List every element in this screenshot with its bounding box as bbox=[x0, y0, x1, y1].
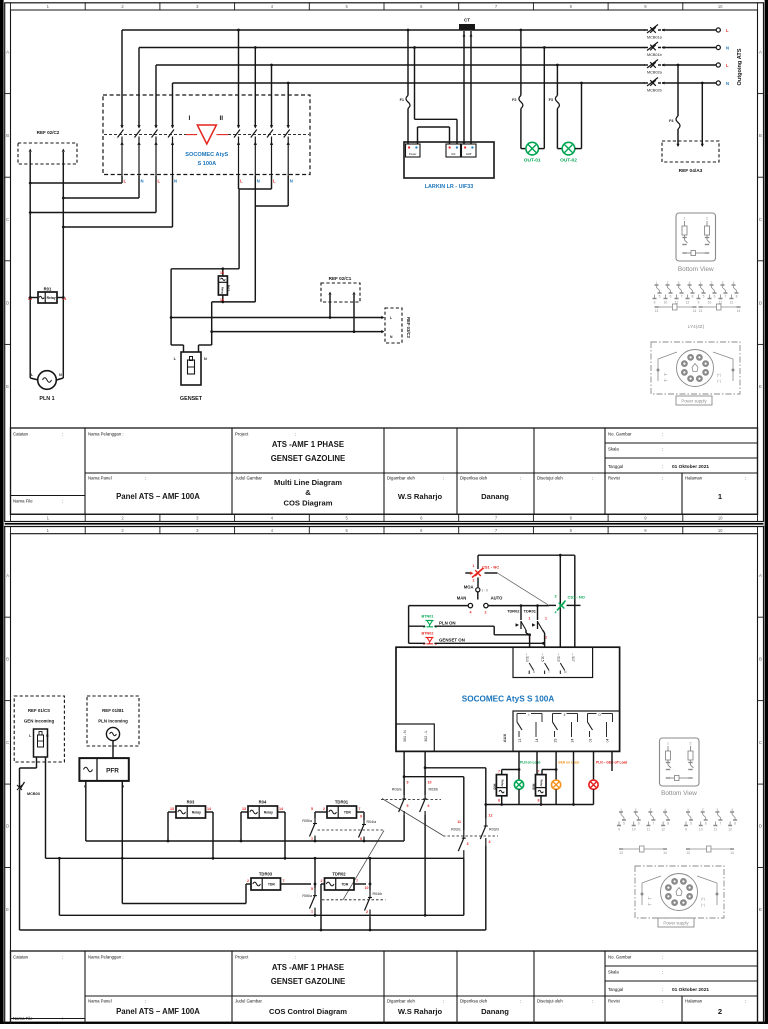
svg-text:8: 8 bbox=[692, 295, 694, 299]
svg-text:A: A bbox=[6, 573, 9, 578]
svg-text:L: L bbox=[726, 63, 729, 68]
svg-text:Nama File: Nama File bbox=[13, 499, 33, 504]
svg-text:R06: R06 bbox=[532, 784, 536, 790]
svg-text:3: 3 bbox=[467, 842, 469, 846]
svg-text:4: 4 bbox=[689, 281, 691, 285]
svg-text:MAN: MAN bbox=[457, 596, 467, 601]
ATS pole II-3 bbox=[267, 96, 273, 176]
current transformer CT bbox=[460, 18, 475, 145]
svg-text:N: N bbox=[257, 179, 260, 184]
svg-text:Volt: Volt bbox=[451, 152, 456, 156]
svg-text:D: D bbox=[759, 824, 762, 829]
SOCOMEC AUX contact block bbox=[502, 711, 620, 751]
svg-text:2: 2 bbox=[473, 579, 475, 583]
label PLN-GEN off Load bbox=[596, 761, 627, 765]
svg-text::: : bbox=[745, 999, 746, 1004]
svg-text:Catatan: Catatan bbox=[13, 955, 29, 960]
svg-text:AMP: AMP bbox=[466, 152, 472, 156]
power supply socket diagram bbox=[651, 342, 740, 405]
svg-text:GENSET GAZOLINE: GENSET GAZOLINE bbox=[271, 977, 346, 986]
svg-text:10: 10 bbox=[664, 301, 668, 305]
svg-text:E: E bbox=[6, 907, 9, 912]
relay contact diagram right p2 bbox=[684, 808, 737, 855]
svg-text:TDR01: TDR01 bbox=[335, 800, 349, 805]
svg-text:4: 4 bbox=[664, 808, 666, 812]
contact CS1-NO bbox=[549, 595, 585, 615]
ATS pole I-2 bbox=[135, 96, 141, 176]
svg-text:SOCOMEC AtyS S 100A: SOCOMEC AtyS S 100A bbox=[462, 695, 555, 704]
svg-text:Nama Pelanggan :: Nama Pelanggan : bbox=[88, 432, 124, 437]
svg-text::: : bbox=[592, 476, 593, 481]
svg-text:11: 11 bbox=[714, 828, 718, 832]
svg-text:5: 5 bbox=[311, 887, 313, 891]
reference tag REF 01/CS GEN incoming bbox=[14, 696, 64, 762]
SOCOMEC supply terminals 301-N 302-L bbox=[396, 724, 434, 751]
relay socket bottom view diagram bbox=[676, 213, 716, 273]
svg-text:S 100A: S 100A bbox=[197, 161, 216, 167]
svg-text:MOA: MOA bbox=[464, 585, 474, 590]
svg-text:Judul Gambar: Judul Gambar bbox=[235, 476, 263, 481]
push button BTN02 GENSET ON bbox=[409, 632, 545, 646]
svg-text:L: L bbox=[124, 179, 127, 184]
svg-text:TDR: TDR bbox=[344, 811, 352, 815]
svg-text:4: 4 bbox=[489, 840, 491, 844]
svg-text:⊢: ⊢ bbox=[648, 902, 652, 907]
SOCOMEC label bbox=[185, 152, 228, 167]
svg-text:12: 12 bbox=[489, 814, 493, 818]
breaker MCB02b bbox=[644, 78, 665, 93]
fuse F1 bbox=[400, 29, 410, 144]
svg-text:2: 2 bbox=[711, 281, 713, 285]
linkage R03ab dashed bbox=[381, 799, 441, 801]
svg-text:R04/a: R04/a bbox=[367, 820, 377, 824]
svg-text:MCB01a: MCB01a bbox=[647, 36, 663, 40]
ATS pole I-4 bbox=[168, 96, 174, 176]
indicator lamp OUT-01 bbox=[524, 46, 546, 163]
svg-text:TDR: TDR bbox=[341, 883, 349, 887]
svg-text:R03/d: R03/d bbox=[489, 828, 499, 832]
svg-text:9: 9 bbox=[685, 828, 687, 832]
svg-text:– 313: – 313 bbox=[556, 653, 560, 661]
fuse F3 bbox=[549, 64, 563, 149]
indicator lamp PLN-GEN off load bbox=[589, 751, 598, 804]
svg-text::: : bbox=[520, 476, 521, 481]
contact CS1-NC bbox=[465, 564, 499, 583]
svg-text:(−): (−) bbox=[717, 379, 721, 383]
svg-text:01 Oktober 2021: 01 Oktober 2021 bbox=[672, 987, 709, 993]
svg-text:Nama Panel: Nama Panel bbox=[88, 476, 112, 481]
outgoing terminal N2 bbox=[716, 81, 729, 86]
svg-text:2: 2 bbox=[667, 281, 669, 285]
svg-text:13: 13 bbox=[686, 851, 690, 855]
svg-text:TDR01: TDR01 bbox=[524, 608, 537, 613]
meter LARKIN LR-UIF33 bbox=[404, 142, 494, 190]
svg-text:Skala: Skala bbox=[608, 447, 619, 452]
svg-text:7: 7 bbox=[498, 770, 500, 774]
svg-text:14: 14 bbox=[207, 807, 211, 811]
svg-text:14: 14 bbox=[730, 851, 734, 855]
svg-text:TDR02: TDR02 bbox=[332, 872, 346, 877]
svg-text:A: A bbox=[759, 573, 762, 578]
svg-text:13: 13 bbox=[170, 807, 174, 811]
svg-text::: : bbox=[662, 987, 663, 992]
svg-text:302 - L: 302 - L bbox=[424, 730, 428, 741]
sheet separation line bbox=[5, 523, 764, 525]
svg-text:COS Control Diagram: COS Control Diagram bbox=[269, 1007, 347, 1016]
svg-text:L: L bbox=[240, 179, 243, 184]
svg-text:10: 10 bbox=[718, 4, 723, 9]
svg-text:13: 13 bbox=[699, 309, 703, 313]
wire PFR N to bus bbox=[121, 781, 124, 904]
svg-text:CT: CT bbox=[464, 18, 470, 23]
svg-text:04: 04 bbox=[606, 739, 610, 743]
svg-text:&: & bbox=[305, 488, 311, 497]
svg-text:4: 4 bbox=[733, 281, 735, 285]
relay socket bottom view diagram p2 bbox=[660, 738, 700, 797]
svg-text:PLN ON: PLN ON bbox=[439, 621, 456, 626]
relay contact diagram LY4 right bbox=[697, 281, 741, 313]
svg-text::: : bbox=[62, 499, 63, 504]
svg-text:2: 2 bbox=[323, 807, 325, 811]
svg-text:8: 8 bbox=[734, 822, 736, 826]
svg-text:7: 7 bbox=[538, 770, 540, 774]
svg-text:GEN on Load: GEN on Load bbox=[558, 761, 579, 765]
svg-text:Nama Pelanggan :: Nama Pelanggan : bbox=[88, 955, 124, 960]
svg-text:Power supply: Power supply bbox=[681, 399, 707, 404]
svg-text:Power supply: Power supply bbox=[663, 921, 689, 926]
svg-text:14: 14 bbox=[693, 309, 697, 313]
title block bbox=[11, 428, 758, 514]
svg-text:7: 7 bbox=[725, 295, 727, 299]
svg-text:2: 2 bbox=[706, 217, 708, 221]
svg-text:24: 24 bbox=[571, 739, 575, 743]
relay PFR phase failure bbox=[79, 741, 128, 789]
svg-text:Bottom View: Bottom View bbox=[661, 790, 697, 797]
svg-text::: : bbox=[520, 999, 521, 1004]
svg-text:MCB02b: MCB02b bbox=[647, 89, 662, 93]
svg-text:5: 5 bbox=[690, 822, 692, 826]
fuse F4 bbox=[669, 64, 680, 147]
indicator lamp OUT-02 bbox=[560, 82, 583, 164]
svg-text:1: 1 bbox=[545, 617, 547, 621]
wire control bus5 bbox=[20, 929, 486, 931]
outgoing terminal L2 bbox=[716, 63, 729, 68]
svg-text:13: 13 bbox=[655, 309, 659, 313]
relay R02 bbox=[218, 269, 230, 302]
svg-text:N: N bbox=[174, 179, 177, 184]
timed contact TDR01 bbox=[524, 604, 547, 647]
linkage R05a-R04a dashed bbox=[318, 829, 385, 831]
svg-text:CS1 - NC: CS1 - NC bbox=[482, 565, 499, 570]
wire PLN ON jog bbox=[494, 626, 531, 636]
svg-text:C: C bbox=[759, 740, 762, 745]
svg-text::: : bbox=[662, 447, 663, 452]
breaker MCB02a bbox=[644, 60, 665, 75]
svg-text:Bottom View: Bottom View bbox=[678, 266, 714, 273]
svg-text:Relay: Relay bbox=[500, 780, 504, 787]
svg-text:9: 9 bbox=[654, 301, 656, 305]
svg-text:OUT-01: OUT-01 bbox=[524, 158, 541, 164]
svg-text:C: C bbox=[6, 217, 9, 222]
svg-text:9: 9 bbox=[407, 781, 409, 785]
svg-text:F1: F1 bbox=[400, 98, 404, 102]
svg-text:– 315: – 315 bbox=[541, 653, 545, 661]
linkage R04b dashed bbox=[322, 899, 386, 901]
svg-text:COS Diagram: COS Diagram bbox=[284, 499, 333, 508]
fuse F2 bbox=[512, 29, 526, 149]
svg-text:1: 1 bbox=[700, 281, 702, 285]
wire bus N1 PLN bbox=[139, 47, 716, 49]
wire PFR L to bus bbox=[85, 781, 87, 841]
svg-text:10: 10 bbox=[632, 828, 636, 832]
contact R04/a bbox=[357, 812, 377, 842]
svg-text:(−): (−) bbox=[701, 903, 705, 907]
LY4(4Z) label bbox=[688, 324, 705, 329]
reference tag REF 02/C1 bbox=[321, 276, 360, 333]
svg-text:10: 10 bbox=[365, 886, 369, 890]
contact R05/a bbox=[302, 807, 327, 842]
ATS red triangle actuator bbox=[197, 125, 216, 144]
svg-text:Halaman: Halaman bbox=[685, 999, 703, 1004]
switch MAN bbox=[457, 596, 473, 615]
svg-text:12: 12 bbox=[686, 301, 690, 305]
svg-text:II: II bbox=[220, 115, 224, 122]
svg-text:MCB01b: MCB01b bbox=[647, 53, 662, 57]
wire pin 04 stub bbox=[611, 751, 613, 771]
svg-text:1: 1 bbox=[529, 617, 531, 621]
wire control bus3 bbox=[122, 903, 246, 905]
linkage dashed CS1 bbox=[497, 573, 549, 605]
svg-text:No. Gambar: No. Gambar bbox=[608, 955, 632, 960]
label GEN on Load bbox=[558, 761, 579, 765]
svg-text::: : bbox=[443, 999, 444, 1004]
breaker MCB01a bbox=[644, 25, 665, 40]
svg-text:Panel ATS – AMF 100A: Panel ATS – AMF 100A bbox=[116, 1007, 200, 1016]
svg-text::: : bbox=[145, 476, 146, 481]
svg-text:14: 14 bbox=[279, 807, 283, 811]
svg-text:6: 6 bbox=[670, 295, 672, 299]
svg-text:13: 13 bbox=[242, 807, 246, 811]
svg-text:PLN 1: PLN 1 bbox=[39, 396, 54, 402]
wire GEN N down bbox=[45, 757, 47, 858]
svg-text::: : bbox=[662, 999, 663, 1004]
svg-text:C: C bbox=[6, 740, 9, 745]
svg-text:REF 01/CS: REF 01/CS bbox=[28, 708, 50, 713]
contact R04/b bbox=[365, 857, 383, 932]
svg-text:11: 11 bbox=[457, 820, 461, 824]
svg-text:L: L bbox=[158, 179, 161, 184]
svg-text:2: 2 bbox=[635, 808, 637, 812]
svg-text:2: 2 bbox=[702, 808, 704, 812]
svg-text:Multi Line Diagram: Multi Line Diagram bbox=[274, 478, 342, 487]
svg-text:Tanggal: Tanggal bbox=[608, 464, 623, 469]
svg-text:4: 4 bbox=[555, 611, 557, 615]
relay R05 bbox=[492, 751, 520, 805]
svg-text:10: 10 bbox=[708, 301, 712, 305]
svg-text::: : bbox=[295, 955, 296, 960]
svg-text:REF 02/C2: REF 02/C2 bbox=[37, 130, 60, 135]
source GENSET bbox=[174, 352, 207, 402]
svg-text:10: 10 bbox=[718, 516, 723, 521]
source PLN 1 bbox=[30, 371, 63, 402]
svg-text:R03/a: R03/a bbox=[392, 788, 402, 792]
page-1 schematic placeholder bbox=[18, 18, 743, 406]
svg-text:Relay: Relay bbox=[47, 296, 56, 300]
svg-text:Panel ATS – AMF 100A: Panel ATS – AMF 100A bbox=[116, 492, 200, 501]
svg-text:5: 5 bbox=[703, 295, 705, 299]
svg-text:14: 14 bbox=[535, 739, 539, 743]
svg-text:R03/b: R03/b bbox=[429, 788, 439, 792]
svg-text:Nama File: Nama File bbox=[13, 1016, 33, 1021]
ATS pole II-4 bbox=[284, 96, 290, 176]
svg-text:8: 8 bbox=[498, 799, 500, 803]
outgoing terminal L1 bbox=[716, 28, 729, 33]
svg-text:I: I bbox=[189, 115, 191, 122]
contact R03/b bbox=[420, 781, 438, 917]
svg-text:10: 10 bbox=[699, 828, 703, 832]
svg-text:301 - N: 301 - N bbox=[403, 730, 407, 742]
svg-text:14: 14 bbox=[663, 851, 667, 855]
svg-text:1 - 0: 1 - 0 bbox=[482, 588, 489, 592]
contact R03/a bbox=[392, 781, 409, 842]
svg-text:⊢: ⊢ bbox=[664, 378, 668, 383]
selector MOA bbox=[464, 578, 488, 600]
svg-text:Outgoing ATS: Outgoing ATS bbox=[737, 48, 743, 85]
wire N to REF 04/A3 bbox=[701, 82, 704, 147]
relay R03 bbox=[167, 800, 215, 860]
breaker MCB03 bbox=[17, 782, 40, 930]
label PLN on Load bbox=[520, 761, 540, 765]
reference tag REF 02/C2 bbox=[18, 130, 77, 198]
svg-text:F2: F2 bbox=[512, 98, 516, 102]
svg-text:A: A bbox=[6, 50, 9, 55]
svg-text:(+): (+) bbox=[701, 897, 705, 901]
svg-text:⊢: ⊢ bbox=[664, 372, 668, 377]
svg-text:10: 10 bbox=[718, 528, 723, 533]
push button BTN01 PLN ON bbox=[409, 615, 495, 629]
svg-text:Diperiksa oleh: Diperiksa oleh bbox=[460, 476, 488, 481]
svg-text:ATS -AMF 1 PHASE: ATS -AMF 1 PHASE bbox=[272, 963, 344, 972]
linkage diagonal B bbox=[343, 831, 384, 900]
svg-text:OUT-02: OUT-02 bbox=[560, 158, 577, 164]
svg-text:Relay: Relay bbox=[220, 287, 224, 294]
svg-text:L: L bbox=[390, 316, 392, 320]
wire L to REF 03/C3 bbox=[171, 316, 384, 319]
svg-text:N: N bbox=[46, 734, 49, 738]
svg-text:N: N bbox=[204, 357, 207, 361]
svg-text::: : bbox=[662, 970, 663, 975]
svg-text:REF 01/B1: REF 01/B1 bbox=[102, 708, 124, 713]
svg-text:TDR03: TDR03 bbox=[259, 872, 273, 877]
svg-text:R03: R03 bbox=[187, 800, 195, 805]
svg-text:Relay: Relay bbox=[264, 811, 273, 815]
svg-text:8: 8 bbox=[736, 295, 738, 299]
contact R03/d bbox=[480, 814, 498, 931]
wire pole I outputs to PLN bbox=[29, 176, 173, 371]
svg-text:LARKIN LR - UIF33: LARKIN LR - UIF33 bbox=[425, 184, 474, 190]
svg-text:N: N bbox=[726, 46, 729, 51]
svg-text:MCB02a: MCB02a bbox=[647, 71, 663, 75]
svg-text:2: 2 bbox=[690, 742, 692, 746]
svg-text:8: 8 bbox=[538, 799, 540, 803]
svg-text:GENSET ON: GENSET ON bbox=[439, 638, 465, 643]
ATS position I label bbox=[189, 115, 191, 122]
svg-text:R04: R04 bbox=[259, 800, 267, 805]
svg-text:D: D bbox=[759, 300, 762, 305]
svg-text:SOCOMEC AtyS: SOCOMEC AtyS bbox=[185, 152, 228, 158]
svg-text:5: 5 bbox=[407, 804, 409, 808]
sheet border frame bbox=[5, 527, 764, 1025]
page-2 schematic placeholder bbox=[14, 554, 737, 932]
svg-text:03: 03 bbox=[589, 739, 593, 743]
svg-text:R02: R02 bbox=[226, 285, 230, 292]
svg-text:TDR02: TDR02 bbox=[507, 608, 520, 613]
svg-text:GENSET GAZOLINE: GENSET GAZOLINE bbox=[271, 454, 346, 463]
svg-text:– 317: – 317 bbox=[571, 653, 575, 661]
svg-text:6: 6 bbox=[638, 822, 640, 826]
wire control bus1 bbox=[86, 840, 404, 842]
svg-text:R03/c: R03/c bbox=[451, 828, 461, 832]
svg-text:3: 3 bbox=[722, 281, 724, 285]
wire N to REF 03/C3 bbox=[212, 330, 385, 333]
title block bbox=[11, 951, 758, 1024]
svg-text:Relay: Relay bbox=[539, 780, 543, 787]
svg-text:N: N bbox=[141, 179, 144, 184]
svg-text:Revisi: Revisi bbox=[608, 476, 620, 481]
svg-text:Project: Project bbox=[235, 432, 249, 437]
wire to R03/c bbox=[404, 777, 464, 830]
power supply socket diagram p2 bbox=[635, 866, 724, 927]
svg-text:Danang: Danang bbox=[481, 1007, 509, 1016]
ATS pole II-2 bbox=[251, 96, 257, 176]
svg-text:R05/a: R05/a bbox=[302, 819, 312, 823]
svg-text:LY4(4Z): LY4(4Z) bbox=[688, 324, 705, 329]
svg-text:7: 7 bbox=[283, 879, 285, 883]
svg-text:3: 3 bbox=[678, 281, 680, 285]
linkage diagonal A bbox=[382, 799, 443, 836]
pole terminal labels L N bbox=[124, 179, 293, 184]
svg-text:ATS -AMF 1 PHASE: ATS -AMF 1 PHASE bbox=[272, 440, 344, 449]
svg-text:3: 3 bbox=[650, 808, 652, 812]
svg-text:REF 02/C1: REF 02/C1 bbox=[329, 276, 352, 281]
svg-text:L: L bbox=[726, 28, 729, 33]
svg-text:12: 12 bbox=[661, 828, 665, 832]
svg-text:B: B bbox=[759, 133, 762, 138]
svg-text:E: E bbox=[759, 384, 762, 389]
svg-text:B: B bbox=[6, 133, 9, 138]
reference tag REF 01/B1 PLN incoming bbox=[87, 696, 139, 746]
contact R06/a bbox=[302, 857, 317, 917]
svg-text:9: 9 bbox=[360, 815, 362, 819]
svg-text:W.S Raharjo: W.S Raharjo bbox=[398, 1007, 443, 1016]
svg-text:8: 8 bbox=[667, 822, 669, 826]
svg-text:BTN02: BTN02 bbox=[422, 632, 434, 636]
svg-text:Tanggal: Tanggal bbox=[608, 987, 623, 992]
svg-text:Halaman: Halaman bbox=[685, 476, 703, 481]
relay contact diagram LY4 left bbox=[653, 281, 697, 313]
svg-text:2: 2 bbox=[718, 1007, 722, 1016]
ATS pole I-1 bbox=[118, 96, 124, 176]
svg-text:GENSET: GENSET bbox=[180, 396, 203, 402]
SOCOMEC top terminal strip bbox=[513, 647, 593, 677]
svg-text:1: 1 bbox=[311, 837, 313, 841]
svg-text:Digambar oleh: Digambar oleh bbox=[387, 999, 416, 1004]
timer TDR01 coil bbox=[323, 800, 361, 819]
svg-text:14: 14 bbox=[737, 309, 741, 313]
svg-text:2: 2 bbox=[247, 879, 249, 883]
svg-text:D: D bbox=[6, 300, 9, 305]
contact R03/c bbox=[451, 820, 468, 915]
